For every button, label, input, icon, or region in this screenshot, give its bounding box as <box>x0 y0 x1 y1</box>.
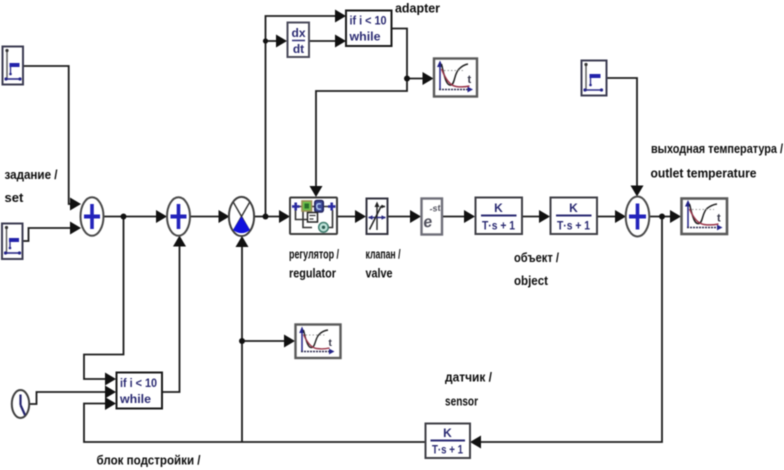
wire sum1 to sum2 <box>104 216 158 218</box>
arrow into while2 input2 <box>105 386 116 399</box>
svg-text:regulator: regulator <box>289 266 336 281</box>
svg-text:объект /: объект / <box>514 250 559 265</box>
svg-text:задание /: задание / <box>5 167 58 182</box>
node E junction to scope1 <box>404 76 410 82</box>
arrow into TF2 <box>539 210 550 223</box>
wire feedback node F down to sensor <box>479 217 662 443</box>
svg-text:if i < 10: if i < 10 <box>120 376 157 390</box>
svg-text:датчик /: датчик / <box>445 370 492 385</box>
wire node C up to adapter branch <box>266 16 338 217</box>
svg-text:блок подстройки /: блок подстройки / <box>97 453 201 468</box>
arrow into delay <box>410 210 421 223</box>
wire sensor output to while2 input3 <box>84 404 425 443</box>
svg-text:valve: valve <box>366 266 393 281</box>
wire node D to dx/dt <box>266 40 279 42</box>
svg-text:K: K <box>569 201 578 215</box>
wire step3 down to sum4 top <box>607 78 637 188</box>
svg-text:adapter: adapter <box>395 1 440 16</box>
wire node E to scope1 <box>407 78 424 80</box>
arrow into sum2 <box>156 210 167 223</box>
wire sum2 to mixer <box>190 216 220 218</box>
svg-text:dx: dx <box>291 26 305 40</box>
arrow into dx/dt <box>276 35 287 48</box>
wire node H to scope3 <box>242 340 286 342</box>
svg-text:object: object <box>514 273 549 288</box>
svg-text:dt: dt <box>293 42 304 56</box>
sensor transfer function block <box>426 424 471 459</box>
wire regulator to valve <box>337 216 357 218</box>
wire mixer to regulator <box>254 216 281 218</box>
wire delay to TF1 <box>443 216 467 218</box>
node F junction after sum4 <box>659 214 665 220</box>
transfer function TF2 (K / T·s+1) <box>551 198 598 235</box>
wire TF1 to TF2 <box>522 216 541 218</box>
arrow into TF1 <box>464 210 475 223</box>
svg-text:T·s + 1: T·s + 1 <box>482 219 515 233</box>
summator sum4 (output) <box>626 197 650 237</box>
svg-text:if i < 10: if i < 10 <box>350 14 387 28</box>
svg-text:t: t <box>717 213 721 225</box>
arrow into scope2 <box>670 210 681 223</box>
svg-text:set: set <box>5 190 24 205</box>
step source block 2 (lower set input) <box>2 224 23 260</box>
node H junction to scope3 <box>239 338 245 344</box>
svg-text:K: K <box>443 426 452 440</box>
node C junction after mixer <box>263 214 269 220</box>
svg-text:while: while <box>348 30 380 44</box>
wire valve to e^-st block <box>388 216 412 218</box>
arrow into scope3 <box>284 335 295 348</box>
svg-text:t: t <box>468 74 472 86</box>
wire node B down to while2 input1 <box>84 217 124 380</box>
wire dx/dt to while1 input2 <box>309 40 337 42</box>
arrow into mixer from below <box>236 236 249 247</box>
svg-text:клапан /: клапан / <box>366 247 401 262</box>
svg-text:outlet temperature: outlet temperature <box>651 166 757 181</box>
arrow into valve <box>355 210 366 223</box>
arrow into scope1 <box>423 72 434 85</box>
derivative block dx/dt <box>288 23 310 58</box>
wire step2 to sum1 lower input <box>23 228 71 241</box>
arrow into mixer <box>219 210 230 223</box>
arrow into while1 input1 <box>335 10 346 23</box>
svg-text:while: while <box>119 392 151 406</box>
valve block (saturation) <box>367 199 388 235</box>
wire step1 to node A (down to sum1 upper input) <box>23 66 72 204</box>
wire TF2 to sum4 <box>597 216 617 218</box>
summator sum2 <box>167 197 190 235</box>
arrow into while2 input3 <box>105 397 116 410</box>
step source block 3 (top right, outlet temperature set) <box>582 61 607 96</box>
svg-text:выходная температура /: выходная температура / <box>651 141 783 156</box>
clock source block <box>12 390 29 418</box>
while block W2 (блок подстройки) <box>117 373 163 409</box>
step source block 1 (задание/set) <box>3 47 24 85</box>
wire bottom node G up to mixer bottom <box>241 245 243 442</box>
arrow into sum4 <box>615 210 626 223</box>
while block W1 (if i<10 / while) <box>346 11 392 47</box>
mixer (comparator with blue sector) <box>229 197 254 236</box>
arrow into sum1 upper <box>70 198 81 211</box>
arrow into regulator <box>279 210 290 223</box>
svg-text:K: K <box>494 201 503 215</box>
regulator subsystem block <box>290 198 337 235</box>
svg-text:T·s + 1: T·s + 1 <box>432 443 463 457</box>
transport delay block e^-st <box>422 199 443 235</box>
arrow into sum4 from top <box>631 186 644 197</box>
arrow into sum1 lower <box>70 222 81 235</box>
svg-text:T·s + 1: T·s + 1 <box>557 219 590 233</box>
wire while1 output to scope1 and down to regulator top <box>316 29 407 189</box>
node D junction to dx/dt <box>263 38 268 43</box>
wire while2 output up to sum2 bottom <box>162 245 180 392</box>
summator sum1 <box>81 197 104 235</box>
arrow into sum2 from below <box>173 236 186 247</box>
scope2 (output scope) <box>682 199 728 235</box>
wire sum4 to scope2 <box>650 216 673 218</box>
arrow into sensor (pointing left) <box>470 436 481 449</box>
scope3 (middle scope) <box>296 325 341 359</box>
scope1 (adapter scope) <box>434 59 477 97</box>
svg-text:sensor: sensor <box>445 394 478 409</box>
svg-text:регулятор /: регулятор / <box>289 247 339 262</box>
arrow into while2 input1 <box>105 373 116 386</box>
transfer function TF1 (K / T·s+1) <box>476 198 523 235</box>
wire clock to while2 input2 <box>29 392 107 404</box>
node B junction after sum1 <box>121 214 127 220</box>
arrow into while1 input2 <box>335 35 346 48</box>
arrow into regulator from top <box>310 186 323 197</box>
